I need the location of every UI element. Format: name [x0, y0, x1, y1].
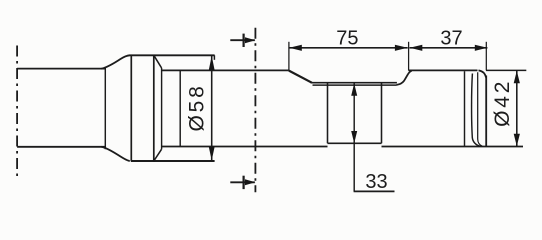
top extension for dia42 [486, 69, 526, 71]
right end chamfer arc line [472, 74, 481, 147]
groove right rise curve [397, 71, 412, 85]
extension line 75 left [288, 42, 290, 71]
marker arrow top tail [230, 39, 255, 41]
collar chamfer inner vertical [161, 68, 163, 149]
collar left vertical [130, 55, 132, 161]
marker arrowhead top [245, 37, 256, 43]
collar top line end tick [213, 55, 215, 60]
marker arrowhead bottom [245, 179, 256, 185]
collar chamfer bottom slant [154, 149, 162, 161]
dia58 arrowhead down [209, 147, 215, 161]
75 arrowhead right [395, 45, 408, 51]
33 arrowhead down [351, 131, 357, 143]
shank top line [162, 69, 289, 71]
collar top line [130, 54, 215, 56]
left break chain line [16, 46, 18, 179]
collar chamfer vertical [153, 55, 155, 161]
right section top line [409, 69, 478, 71]
groove floor lower line [313, 84, 397, 86]
shaft bottom line [17, 146, 105, 148]
groove left slant [289, 71, 312, 83]
groove floor upper line [311, 82, 397, 84]
dia58 dimension line [211, 55, 213, 161]
dia42 arrowhead up [514, 71, 520, 84]
marker arrow bottom tail [230, 181, 255, 183]
svg-text:33: 33 [365, 171, 387, 193]
groove wall left vertical [327, 84, 329, 144]
svg-text:37: 37 [440, 27, 462, 49]
marker arrow top tick [243, 34, 245, 47]
inner vertical behind collar [179, 70, 181, 146]
extension line 75-37 shared [408, 42, 410, 71]
svg-text:75: 75 [336, 27, 358, 49]
right section bottom line with extension [382, 146, 524, 148]
svg-text:Ø42: Ø42 [491, 79, 514, 127]
75 arrowhead left [289, 45, 302, 51]
taper top curve [102, 55, 130, 69]
collar chamfer top slant [154, 55, 162, 68]
dimension line 37 [410, 47, 488, 49]
33 arrowhead up [351, 83, 357, 95]
marker arrow bottom tick [243, 176, 245, 189]
taper bottom curve [102, 147, 130, 161]
svg-text:Ø58: Ø58 [186, 83, 209, 131]
shaft top line [17, 68, 105, 70]
37 arrowhead right [475, 45, 488, 51]
right end inner vertical [464, 71, 466, 146]
taper boundary vertical [104, 67, 106, 149]
groove wall right vertical [381, 84, 383, 144]
right end chamfer arc line 2 [478, 72, 483, 146]
right end top corner arc [479, 70, 487, 77]
extension line 37 right [485, 42, 487, 71]
dia58 arrowhead up [209, 56, 215, 70]
33 dimension line [353, 83, 355, 191]
37 arrowhead left [410, 45, 423, 51]
marker chain line [254, 28, 256, 193]
collar bottom line [131, 160, 215, 162]
right end face vertical [485, 76, 487, 147]
dimension line 75 [289, 47, 408, 49]
dia42 dimension line [516, 70, 518, 146]
shank bottom line [162, 146, 328, 148]
dia42 arrowhead down [514, 134, 520, 147]
33 leader horizontal [354, 190, 395, 192]
groove bottom silhouette line [328, 142, 382, 144]
